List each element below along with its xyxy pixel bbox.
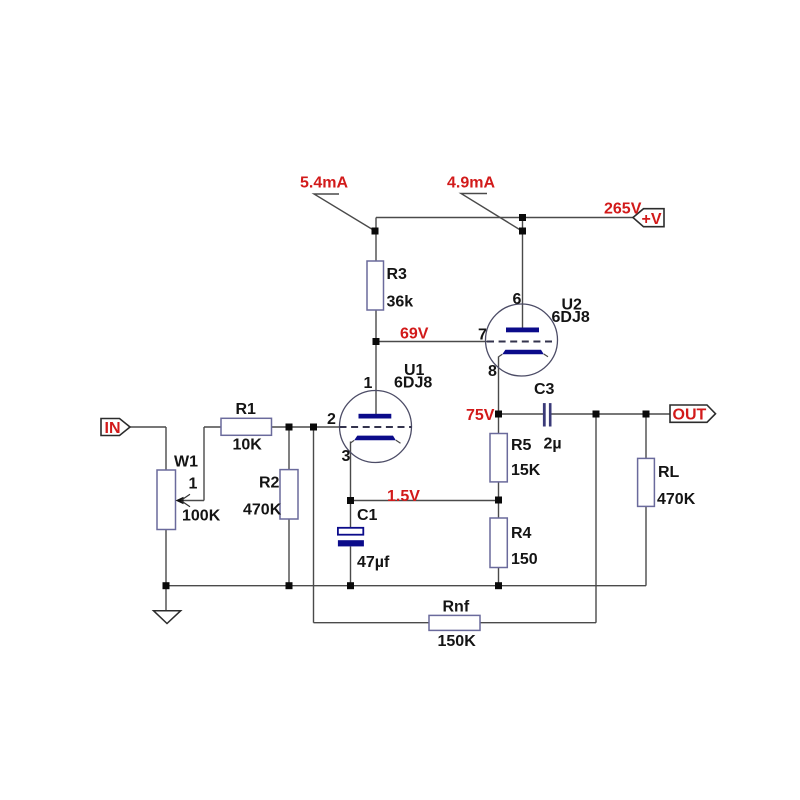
wire 1.5V cathode node <box>351 500 499 502</box>
wire Rnf right <box>480 622 596 624</box>
svg-text:W1: W1 <box>174 454 198 471</box>
wire R5 bottom lead <box>498 482 500 500</box>
svg-text:1: 1 <box>364 375 373 392</box>
svg-text:1: 1 <box>189 476 198 493</box>
resistor R5 <box>490 434 541 482</box>
wire top supply rail <box>376 217 633 219</box>
svg-text:IN: IN <box>105 420 121 437</box>
svg-text:69V: 69V <box>400 326 429 343</box>
terminal +V <box>633 209 664 228</box>
svg-text:470K: 470K <box>657 491 696 508</box>
wire RL bottom lead <box>645 507 647 586</box>
junction 1.5V cathode <box>347 497 354 504</box>
label 69V <box>400 326 429 343</box>
wire wiper riser <box>203 427 205 501</box>
junction R5-R4 <box>495 497 502 504</box>
junction grid feedback <box>310 424 317 431</box>
triode U2 <box>478 291 590 380</box>
svg-text:R5: R5 <box>511 437 532 454</box>
svg-text:36k: 36k <box>387 294 414 311</box>
junction ground C1 <box>347 582 354 589</box>
svg-text:6DJ8: 6DJ8 <box>552 309 590 326</box>
svg-text:150K: 150K <box>438 633 477 650</box>
wire U1 grid wire pin 2 <box>272 426 340 428</box>
svg-text:470K: 470K <box>243 502 282 519</box>
potentiometer W1 <box>157 454 221 530</box>
resistor R4 <box>490 518 538 568</box>
wire U2 plate lead pin 6 <box>522 218 524 329</box>
ground <box>154 611 181 624</box>
junction ground R2 <box>286 582 293 589</box>
svg-text:Rnf: Rnf <box>443 599 470 616</box>
svg-text:R4: R4 <box>511 525 532 542</box>
wire Rnf left <box>314 622 430 624</box>
wire C1 bottom lead <box>350 547 352 586</box>
wire U1 cathode lead pin 3 <box>350 442 352 501</box>
wire U1 plate lead pin 1 <box>375 342 377 415</box>
svg-text:5.4mA: 5.4mA <box>300 175 348 192</box>
label 75V <box>466 407 495 424</box>
svg-text:265V: 265V <box>604 201 642 218</box>
wire pot top lead <box>165 427 167 470</box>
resistor R2 <box>243 470 298 519</box>
svg-text:47µf: 47µf <box>357 554 390 571</box>
wire R5 top lead <box>498 414 500 434</box>
svg-text:2µ: 2µ <box>544 436 562 453</box>
svg-text:75V: 75V <box>466 407 495 424</box>
resistor R1 <box>221 401 272 454</box>
svg-text:1.5V: 1.5V <box>387 488 420 505</box>
junction 69V node <box>373 338 380 345</box>
terminal OUT <box>670 405 716 424</box>
wire U2 cathode lead pin 8 <box>498 357 500 415</box>
svg-text:C3: C3 <box>534 381 555 398</box>
resistor Rnf <box>429 599 480 651</box>
svg-text:2: 2 <box>327 411 336 428</box>
terminal IN <box>101 419 130 438</box>
svg-text:6DJ8: 6DJ8 <box>394 375 432 392</box>
wire 69V node to U2 grid <box>376 341 487 343</box>
resistor RL <box>638 458 696 508</box>
svg-text:10K: 10K <box>233 437 263 454</box>
junction leader left <box>372 228 379 235</box>
wire R3 top lead <box>375 218 377 262</box>
wire R1 left lead <box>204 426 221 428</box>
junction leader right <box>519 228 526 235</box>
svg-text:R3: R3 <box>387 266 408 283</box>
junction ground pot <box>163 582 170 589</box>
svg-text:6: 6 <box>513 291 522 308</box>
svg-text:R1: R1 <box>236 401 257 418</box>
junction ground R4 <box>495 582 502 589</box>
svg-text:8: 8 <box>488 363 497 380</box>
junction output RL <box>643 411 650 418</box>
svg-text:100K: 100K <box>182 508 221 525</box>
wire R3 bottom lead <box>375 310 377 342</box>
junction supply rail U2 <box>519 214 526 221</box>
label 1.5V <box>387 488 420 505</box>
svg-text:OUT: OUT <box>673 407 707 424</box>
svg-text:RL: RL <box>658 464 680 481</box>
wire R4 top lead <box>498 500 500 518</box>
triode U1 <box>327 362 432 465</box>
svg-text:7: 7 <box>478 327 487 344</box>
wire ground stub <box>165 586 167 611</box>
capacitor C3 <box>534 381 562 453</box>
wire pot bottom lead <box>165 530 167 586</box>
wire R2 top lead <box>288 427 290 470</box>
svg-text:4.9mA: 4.9mA <box>447 175 495 192</box>
svg-text:3: 3 <box>342 448 351 465</box>
label 4.9mA <box>447 175 495 192</box>
label 5.4mA <box>300 175 348 192</box>
leader 4.9mA <box>461 194 522 232</box>
svg-text:150: 150 <box>511 551 538 568</box>
wire wiper to riser <box>183 500 204 502</box>
wire R4 bottom lead <box>498 568 500 586</box>
resistor R3 <box>367 261 413 311</box>
svg-text:+V: +V <box>642 211 662 228</box>
wire C3 to OUT <box>552 413 671 415</box>
wire C1 top lead <box>350 501 352 528</box>
leader 5.4mA <box>314 194 375 231</box>
junction 75V node <box>495 411 502 418</box>
wire RL top lead <box>645 414 647 459</box>
wire ground bus <box>166 585 646 587</box>
svg-text:15K: 15K <box>511 462 541 479</box>
svg-text:R2: R2 <box>259 475 280 492</box>
junction R1-R2 <box>286 424 293 431</box>
wire IN terminal to pot <box>130 426 166 428</box>
wire feedback drop from grid <box>313 427 315 623</box>
wire 75V node to C3 <box>499 413 544 415</box>
wire feedback riser to output <box>595 414 597 623</box>
label 265V <box>604 201 642 218</box>
wire R2 bottom lead <box>288 519 290 586</box>
svg-text:C1: C1 <box>357 507 378 524</box>
capacitor C1 <box>338 507 390 571</box>
junction output feedback <box>593 411 600 418</box>
